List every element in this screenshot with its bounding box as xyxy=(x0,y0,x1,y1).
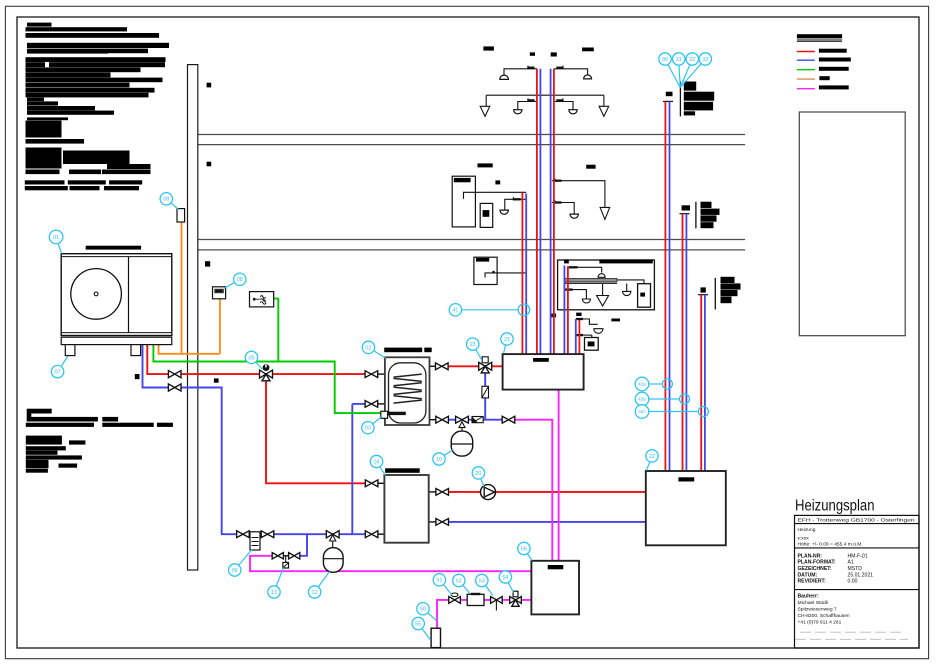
svg-text:PLAN-NR:: PLAN-NR: xyxy=(798,553,823,559)
attic air vents xyxy=(480,106,490,116)
cross valve 54 xyxy=(513,591,518,597)
valve 53 body xyxy=(491,597,497,604)
flow regulator below valve 23 xyxy=(482,386,489,398)
svg-text:09: 09 xyxy=(232,568,238,574)
svg-text:Michael Stüdli: Michael Stüdli xyxy=(798,600,828,606)
safety valve body xyxy=(456,416,462,423)
callout 54 xyxy=(499,571,513,593)
callout 03 sensor xyxy=(362,417,382,434)
svg-text:07: 07 xyxy=(55,370,61,376)
callout 07 xyxy=(51,356,68,378)
valve tank04 outlet top xyxy=(436,489,442,496)
valve on red HP line xyxy=(168,371,174,378)
outdoor sensor 08 on wall xyxy=(177,209,185,222)
callout 02 tank xyxy=(362,341,385,358)
svg-text:32: 32 xyxy=(689,57,695,63)
floor slab lower xyxy=(198,240,745,250)
valve tank bottom xyxy=(436,416,442,423)
filter 52 xyxy=(467,594,484,605)
callout 04 buffer tank xyxy=(370,455,385,475)
marker circle 41 on risers xyxy=(518,304,530,316)
svg-text:Heizungsplan: Heizungsplan xyxy=(795,498,875,515)
legend entries xyxy=(797,51,815,53)
riser symbol attic (30-33) xyxy=(679,82,681,117)
callout 12 xyxy=(308,572,329,599)
callout 42a xyxy=(635,377,649,391)
valve before filter 09 xyxy=(237,531,243,538)
svg-text:42c: 42c xyxy=(638,409,646,414)
svg-text:33: 33 xyxy=(702,57,708,63)
risers pair 3 (attic) xyxy=(550,69,552,354)
svg-text:56: 56 xyxy=(521,546,527,552)
svg-text:Heizung: Heizung xyxy=(798,527,816,533)
valve coil inlet xyxy=(365,371,371,378)
key plan box xyxy=(799,112,905,336)
callout 41 xyxy=(449,304,461,316)
attic radiator valve heads xyxy=(500,75,509,79)
callout 31 xyxy=(673,53,685,88)
heat pump U01 outdoor unit xyxy=(61,254,172,356)
svg-text:08: 08 xyxy=(163,197,169,203)
callout 20 xyxy=(472,467,484,487)
svg-text:+41 (0)79 911 4 261: +41 (0)79 911 4 261 xyxy=(798,620,842,626)
callout 50 xyxy=(417,603,437,621)
svg-text:04: 04 xyxy=(374,459,380,465)
callout 22 xyxy=(646,450,658,471)
circulation pump 20 xyxy=(481,485,496,500)
callout 08 xyxy=(224,273,246,288)
safety valve 12 body xyxy=(326,531,332,538)
svg-text:02: 02 xyxy=(365,345,371,351)
valve before DHW line xyxy=(502,416,508,423)
svg-text:CH-8200, Schaffhausen: CH-8200, Schaffhausen xyxy=(798,613,850,619)
small redacted labels xyxy=(86,46,620,472)
callout 32 xyxy=(680,53,698,88)
sensor wire (green) xyxy=(153,299,380,414)
svg-text:Höhe: +/- 0.00 = 455.4 m.ü.M.: Höhe: +/- 0.00 = 455.4 m.ü.M. xyxy=(798,542,863,548)
callout 01 xyxy=(49,230,63,253)
callout 52 xyxy=(453,574,470,593)
heat pump supply pipe (red) xyxy=(147,345,646,492)
callout 10 xyxy=(433,450,453,465)
callout 55 xyxy=(412,617,431,640)
svg-text:03: 03 xyxy=(365,426,371,432)
signature dashed lines xyxy=(800,631,905,633)
risers pair 2 (attic) xyxy=(536,69,538,354)
svg-text:MSTD: MSTD xyxy=(848,566,863,572)
svg-text:50: 50 xyxy=(420,607,426,613)
svg-text:23: 23 xyxy=(470,342,476,348)
risers pair A (right) xyxy=(664,101,666,471)
risers pair 4 xyxy=(563,266,565,355)
fill valve right xyxy=(289,553,295,559)
marker circle 42a xyxy=(662,379,672,389)
svg-text:30: 30 xyxy=(662,57,668,63)
heating manifold 21 xyxy=(503,354,584,390)
callout 23 xyxy=(467,338,482,360)
svg-text:08: 08 xyxy=(237,277,243,283)
svg-text:0.00: 0.00 xyxy=(848,579,858,585)
svg-text:51: 51 xyxy=(436,578,442,584)
valve tank04 outlet bottom xyxy=(436,519,442,526)
svg-text:54: 54 xyxy=(502,575,508,581)
branch tick marks xyxy=(527,68,563,101)
redacted notes text block top-left xyxy=(25,23,169,191)
3-way valve 23 body xyxy=(479,362,486,370)
svg-text:HM-F-01: HM-F-01 xyxy=(848,553,868,559)
svg-text:REVIDIERT:: REVIDIERT: xyxy=(798,579,827,585)
svg-text:31: 31 xyxy=(676,57,682,63)
callout 33 xyxy=(680,53,711,88)
redacted notes text block mid-left xyxy=(26,409,173,473)
basement framed heating group xyxy=(558,260,655,310)
callout 13 xyxy=(268,568,284,599)
svg-text:13: 13 xyxy=(271,590,277,596)
domestic water pipes (magenta) xyxy=(250,390,559,629)
risers pair B (right) xyxy=(682,214,684,471)
svg-text:20: 20 xyxy=(475,471,481,477)
heating manifold 22 xyxy=(646,471,726,545)
3-way valve 23 xyxy=(482,357,488,363)
buffer tank 04 xyxy=(384,475,428,543)
svg-text:42a: 42a xyxy=(638,382,646,387)
svg-text:A1: A1 xyxy=(848,560,854,566)
callout 30 xyxy=(659,53,680,88)
fill connection 13 xyxy=(285,556,287,563)
callout 42b xyxy=(635,392,649,406)
svg-text:10: 10 xyxy=(436,457,442,463)
callout 09 xyxy=(229,550,253,577)
svg-text:41: 41 xyxy=(452,308,458,314)
svg-text:05: 05 xyxy=(249,355,255,361)
svg-text:12: 12 xyxy=(312,590,318,596)
valve on blue HP line xyxy=(168,384,174,391)
heat pump return pipe (blue) xyxy=(143,345,646,556)
svg-text:Spitzwiesenweg 7: Spitzwiesenweg 7 xyxy=(798,607,837,613)
riser symbol basement xyxy=(714,278,716,310)
svg-text:42b: 42b xyxy=(638,397,646,402)
room thermostat 08 xyxy=(213,287,226,299)
check valve xyxy=(472,417,483,423)
svg-text:DATUM:: DATUM: xyxy=(798,572,818,578)
mixing valve body xyxy=(260,370,267,378)
pipe connection stubs xyxy=(513,66,563,203)
svg-text:PLAN-FORMAT:: PLAN-FORMAT: xyxy=(798,560,836,566)
attic branch piping xyxy=(486,69,604,110)
svg-text:Bauherr:: Bauherr: xyxy=(798,594,820,600)
expansion vessel 12 xyxy=(323,548,343,573)
riser symbol 1st floor xyxy=(695,202,697,229)
basement heating circuit branch xyxy=(576,319,598,340)
legend title xyxy=(797,34,842,38)
callout 53 xyxy=(476,574,493,595)
basement control box xyxy=(474,257,497,284)
thermostat wires (orange) xyxy=(159,222,220,354)
callout 05 xyxy=(245,351,262,369)
filter 09 xyxy=(250,532,260,550)
water meter 55 xyxy=(431,628,440,647)
svg-text:x:xxx: x:xxx xyxy=(798,536,810,541)
black pipe stubs xyxy=(283,366,437,556)
valve tank04 inlet top xyxy=(365,480,371,487)
floor slab upper xyxy=(198,135,745,145)
risers pair 5 xyxy=(575,319,577,354)
first floor right heating group xyxy=(552,181,605,214)
valve after filter 09 xyxy=(261,531,267,538)
svg-text:GEZEICHNET:: GEZEICHNET: xyxy=(798,566,832,572)
svg-text:53: 53 xyxy=(479,578,485,584)
fill valve left xyxy=(272,553,278,559)
svg-text:55: 55 xyxy=(415,621,421,627)
callout 08 xyxy=(160,193,178,210)
callout 42c xyxy=(635,405,649,419)
callout 51 xyxy=(433,574,452,595)
water heater 56 xyxy=(531,561,579,615)
svg-text:01: 01 xyxy=(53,235,59,241)
callout 21 xyxy=(501,333,513,354)
valve coil outlet xyxy=(365,401,371,408)
valve 51 body xyxy=(449,597,455,604)
valve tank04 inlet bottom xyxy=(365,531,371,538)
svg-text:52: 52 xyxy=(456,578,462,584)
risers pair C (right) xyxy=(700,295,702,471)
first floor left heating group xyxy=(452,176,475,227)
svg-text:25.01.2021: 25.01.2021 xyxy=(848,572,874,578)
svg-text:21: 21 xyxy=(504,337,510,343)
marker circle 42c xyxy=(698,407,708,417)
tank sensor pocket 03 xyxy=(381,411,388,418)
wall xyxy=(188,65,198,570)
expansion vessel 10 xyxy=(451,431,473,456)
risers pair 1 xyxy=(521,192,523,354)
controller box with sensor symbol xyxy=(250,292,274,307)
valve tank top outlet xyxy=(436,363,442,370)
svg-text:22: 22 xyxy=(649,454,655,460)
svg-text:EFH - Trottenweg GB1700 - Oste: EFH - Trottenweg GB1700 - Osterfingen xyxy=(798,518,915,524)
hot water tank 02 xyxy=(385,357,430,425)
callout 56 xyxy=(518,542,532,560)
marker circle 42b xyxy=(680,394,690,404)
